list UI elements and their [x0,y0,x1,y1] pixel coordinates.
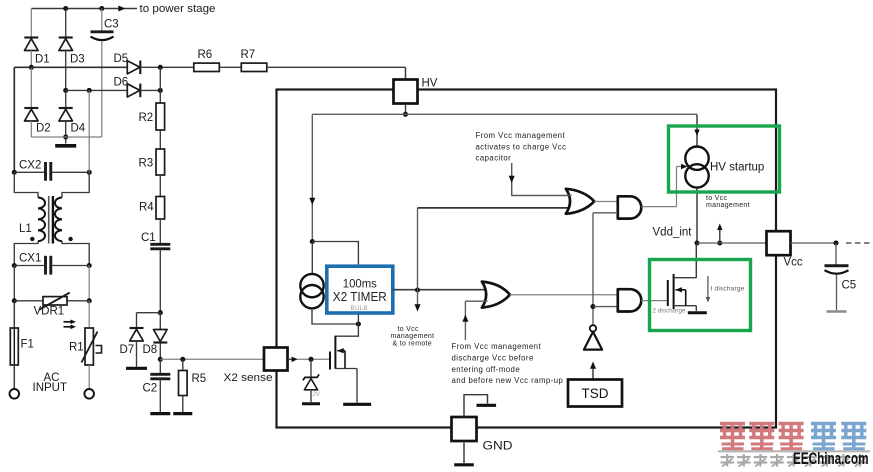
svg-text:& to remote: & to remote [393,340,432,347]
svg-text:F1: F1 [21,339,34,351]
svg-text:R3: R3 [139,158,154,170]
svg-text:D4: D4 [71,123,86,135]
svg-text:D2: D2 [36,123,51,135]
svg-text:R1: R1 [69,342,84,354]
svg-text:to Vcc: to Vcc [398,326,419,333]
svg-text:management: management [391,333,435,340]
svg-text:R5: R5 [192,373,207,385]
svg-text:to Vcc: to Vcc [706,195,727,202]
svg-text:D7: D7 [120,344,135,356]
svg-text:entering off-mode: entering off-mode [452,365,521,374]
svg-text:C5: C5 [842,280,857,292]
svg-text:C3: C3 [104,19,119,31]
svg-text:capacitor: capacitor [476,154,512,163]
svg-text:CX1: CX1 [19,253,41,265]
svg-text:D5: D5 [114,53,129,65]
svg-text:VDR1: VDR1 [34,306,65,318]
svg-text:D8: D8 [143,344,158,356]
svg-text:X2 TIMER: X2 TIMER [333,289,387,304]
svg-text:R2: R2 [139,112,154,124]
svg-text:I discharge: I discharge [711,285,745,292]
svg-text:to power stage: to power stage [140,3,216,15]
svg-text:D6: D6 [114,77,129,89]
svg-text:and before new Vcc ramp-up: and before new Vcc ramp-up [452,376,564,385]
svg-text:L1: L1 [19,223,32,235]
svg-text:HV startup: HV startup [710,162,764,174]
svg-text:HV: HV [422,78,438,90]
svg-text:CX2: CX2 [19,160,41,172]
svg-text:EEChina.com: EEChina.com [793,450,869,468]
svg-text:D1: D1 [35,54,50,66]
svg-text:From Vcc management: From Vcc management [476,131,566,140]
svg-text:Vdd_int: Vdd_int [653,227,693,239]
svg-text:discharge Vcc before: discharge Vcc before [452,354,534,363]
svg-text:BULB: BULB [351,306,368,312]
svg-text:C2: C2 [143,383,158,395]
svg-text:From Vcc management: From Vcc management [452,342,542,351]
svg-text:R4: R4 [139,202,154,214]
svg-text:C1: C1 [141,232,156,244]
svg-text:D3: D3 [70,54,85,66]
svg-text:2V: 2V [313,392,320,398]
svg-text:GND: GND [483,441,513,453]
svg-text:R7: R7 [241,49,256,61]
svg-text:TSD: TSD [582,386,609,401]
svg-text:activates to charge Vcc: activates to charge Vcc [476,142,567,151]
svg-text:INPUT: INPUT [33,382,68,394]
svg-text:2 discharge: 2 discharge [653,308,687,315]
svg-text:R6: R6 [198,49,213,61]
svg-text:Vcc: Vcc [784,257,803,269]
svg-text:X2 sense: X2 sense [224,372,273,384]
svg-text:management: management [706,202,750,209]
